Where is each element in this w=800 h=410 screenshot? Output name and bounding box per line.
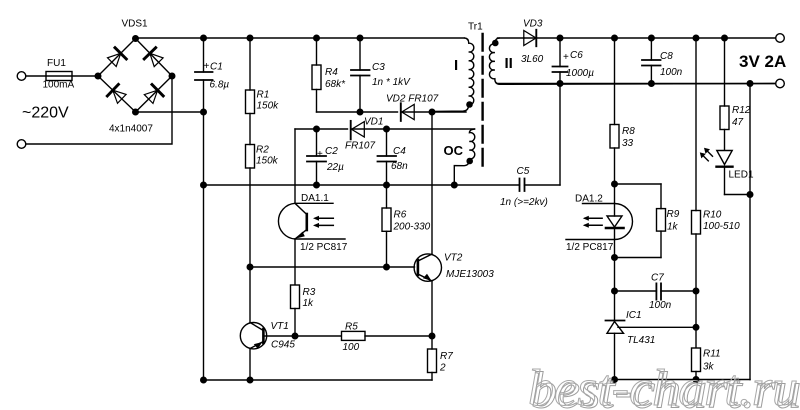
svg-text:R6: R6 (394, 210, 407, 221)
bridge diode top-left (108, 48, 127, 67)
LED LED1 (717, 151, 751, 195)
DA1.1 light arrow 1 (313, 216, 333, 221)
diode VD2 (401, 103, 466, 121)
svg-text:47: 47 (732, 117, 744, 128)
winding OC (454, 129, 474, 185)
node R2 bottom / VT2 base net (247, 264, 253, 270)
DA1.1 light arrow 2 (313, 223, 333, 228)
wire II top to VD3 (498, 37, 525, 39)
wire VT2 base net (250, 266, 415, 268)
svg-text:FU1: FU1 (47, 58, 66, 69)
node R3 bottom / VT1 base (292, 333, 298, 339)
svg-text:VT1: VT1 (271, 321, 289, 332)
bridge diode bottom-right (144, 85, 163, 104)
wire R10 to R11 (695, 291, 697, 347)
resistor R11 (692, 348, 701, 380)
node R12 top (722, 35, 728, 41)
node C8 bottom (649, 81, 655, 87)
node IC1 ref (693, 325, 699, 331)
node bridge top (133, 36, 139, 42)
resistor R2 (246, 145, 255, 268)
node OC bottom gnd (452, 182, 458, 188)
diode VD3 (524, 30, 776, 46)
svg-text:C4: C4 (393, 146, 406, 157)
svg-text:2: 2 (439, 363, 446, 374)
svg-text:3V 2A: 3V 2A (739, 52, 786, 71)
diode VD1 (351, 121, 475, 139)
svg-text:+: + (204, 61, 210, 72)
svg-text:C8: C8 (660, 51, 673, 62)
node C6 top (557, 35, 563, 41)
node bridge left (95, 73, 101, 79)
wire switch node down to VT2 collector (431, 112, 433, 254)
node R11 bottom (693, 377, 699, 383)
svg-text:1000µ: 1000µ (566, 68, 594, 79)
transistor VT1 C945 (240, 267, 266, 380)
wire top rail primary (136, 37, 465, 39)
wire primary gnd bottom rail (204, 379, 433, 381)
fuse FU1 (46, 72, 98, 81)
resistor R8 (610, 38, 619, 184)
node R8 bottom / DA1.2 anode (612, 181, 618, 187)
wire left gnd drop (203, 185, 205, 380)
svg-text:C3: C3 (372, 62, 385, 73)
svg-text:TL431: TL431 (627, 335, 655, 346)
winding I polarity dot (467, 102, 472, 107)
resistor R10 (692, 38, 701, 291)
svg-text:R9: R9 (667, 209, 680, 220)
wire input top to fuse (26, 75, 46, 77)
svg-text:IC1: IC1 (626, 310, 642, 321)
resistor R9 (615, 184, 666, 258)
svg-text:R1: R1 (257, 90, 270, 101)
winding II (489, 38, 775, 84)
node bridge right (169, 73, 175, 79)
node C3 top (357, 35, 363, 41)
node DA1.2 cathode (612, 255, 618, 261)
svg-text:150k: 150k (257, 101, 280, 112)
svg-text:C6: C6 (570, 50, 583, 61)
capacitor C5 (520, 84, 561, 192)
svg-text:C945: C945 (271, 340, 295, 351)
output terminal minus (776, 79, 785, 88)
optocoupler DA1.2 LED (566, 184, 633, 258)
svg-text:+: + (317, 149, 323, 160)
resistor R5 (342, 331, 433, 340)
svg-text:II: II (505, 55, 513, 72)
svg-text:R12: R12 (732, 105, 751, 116)
capacitor C2 (307, 129, 326, 185)
svg-text:MJE13003: MJE13003 (446, 269, 494, 280)
svg-text:R2: R2 (256, 145, 269, 156)
node R1 top (247, 35, 253, 41)
node VT1 emitter gnd (247, 377, 253, 383)
svg-text:68n: 68n (391, 161, 408, 172)
node C4 bottom / R6 top (384, 182, 390, 188)
svg-text:VD2 FR107: VD2 FR107 (386, 94, 439, 105)
transformer Tr1 core (481, 34, 483, 172)
wire secondary 0V rail (498, 83, 776, 85)
wire DA1.1 emitter to R3 (294, 239, 296, 284)
winding OC polarity dot (467, 158, 472, 163)
node C8 top (649, 35, 655, 41)
capacitor C7 (615, 283, 697, 299)
svg-text:+: + (563, 52, 569, 63)
capacitor C6 (553, 38, 568, 84)
optocoupler DA1.1 phototransistor (278, 203, 345, 239)
resistor R7 (428, 336, 437, 380)
svg-text:68k*: 68k* (325, 79, 346, 90)
DA1.2 light arrow 1 (583, 216, 602, 221)
svg-text:100-510: 100-510 (703, 221, 740, 232)
node C2 bottom (314, 182, 320, 188)
node IC1 anode gnd (612, 377, 618, 383)
wire DA1.1 collector drop (294, 129, 296, 203)
svg-text:150k: 150k (256, 156, 279, 167)
node VD1 C4 junction (384, 126, 390, 132)
svg-text:1k: 1k (667, 222, 679, 233)
wire secondary gnd rail (615, 379, 751, 381)
svg-text:DA1.2: DA1.2 (575, 194, 603, 205)
node left gnd bottom (201, 377, 207, 383)
node C7 right (693, 288, 699, 294)
svg-text:R3: R3 (303, 287, 316, 298)
capacitor C1 (195, 38, 213, 185)
node C2 top (314, 126, 320, 132)
LED1 emission arrow 1 (704, 148, 713, 157)
svg-text:R8: R8 (622, 126, 635, 137)
svg-text:~220V: ~220V (22, 105, 69, 122)
bridge VDS1 frame (98, 39, 172, 113)
winding I (432, 38, 474, 112)
svg-text:C5: C5 (517, 166, 530, 177)
svg-text:DA1.1: DA1.1 (301, 193, 329, 204)
svg-text:3L60: 3L60 (521, 54, 544, 65)
input terminal top (17, 72, 26, 81)
output terminal plus (776, 34, 785, 43)
wire mid gnd rail (204, 184, 520, 186)
wire 0V drop right (749, 84, 751, 380)
wire snubber bottom (317, 111, 398, 113)
resistor R6 (382, 185, 391, 267)
svg-text:6.8µ: 6.8µ (210, 80, 230, 91)
bridge diode top-right (144, 48, 163, 67)
node R8 top (612, 35, 618, 41)
capacitor C3 (351, 38, 370, 112)
svg-text:4x1n4007: 4x1n4007 (109, 124, 153, 135)
node C1 bridge bottom (201, 109, 207, 115)
resistor R3 (291, 285, 300, 336)
node bridge bottom (133, 109, 139, 115)
svg-text:R4: R4 (325, 67, 338, 78)
input terminal bottom (17, 140, 26, 149)
svg-text:1/2 PC817: 1/2 PC817 (566, 242, 614, 253)
node R10 top (693, 35, 699, 41)
svg-text:100n: 100n (660, 67, 683, 78)
svg-text:R10: R10 (703, 210, 722, 221)
DA1.2 light arrow 2 (583, 223, 602, 228)
bridge diode bottom-left (107, 84, 126, 103)
resistor R1 (246, 38, 255, 145)
svg-text:Tr1: Tr1 (468, 22, 483, 33)
svg-text:I: I (454, 57, 458, 74)
svg-text:1/2 PC817: 1/2 PC817 (300, 242, 348, 253)
svg-text:R5: R5 (345, 322, 358, 333)
svg-text:C2: C2 (325, 146, 338, 157)
node R4 top (314, 35, 320, 41)
svg-text:33: 33 (622, 138, 634, 149)
svg-text:R7: R7 (440, 351, 453, 362)
wire DA1.2 cathode to C7 (614, 258, 616, 321)
node C1 top (201, 35, 207, 41)
shunt regulator IC1 TL431 (606, 321, 697, 380)
watermark best-chart.ru (528, 360, 800, 410)
node LED1 return (747, 192, 753, 198)
svg-text:100n: 100n (649, 300, 672, 311)
node C3 bottom (357, 109, 363, 115)
svg-text:FR107: FR107 (345, 141, 375, 152)
wire input bottom (26, 76, 172, 144)
svg-text:VDS1: VDS1 (122, 19, 149, 30)
svg-text:200-330: 200-330 (393, 222, 431, 233)
node VD2 switch (429, 109, 435, 115)
svg-text:best-chart.ru: best-chart.ru (528, 360, 798, 410)
resistor R4 (312, 38, 321, 112)
svg-text:100mA: 100mA (43, 80, 75, 91)
svg-text:OC: OC (444, 143, 464, 158)
svg-text:VT2: VT2 (444, 253, 463, 264)
svg-text:R11: R11 (703, 349, 721, 360)
resistor R12 (720, 38, 729, 150)
svg-text:22µ: 22µ (326, 162, 344, 173)
node 0V drop top (747, 81, 753, 87)
svg-text:1k: 1k (303, 298, 315, 309)
wire VD1 aux line corner (295, 128, 348, 130)
node C7 left (612, 288, 618, 294)
node C1 gnd (201, 182, 207, 188)
node C6 bottom / C5 (557, 81, 563, 87)
transistor VT2 MJE13003 (414, 254, 441, 336)
winding II polarity dot (493, 40, 498, 45)
svg-text:C7: C7 (651, 273, 664, 284)
node R6 bottom (384, 264, 390, 270)
capacitor C8 (642, 38, 661, 84)
svg-text:VD3: VD3 (523, 19, 543, 30)
capacitor C4 (378, 129, 397, 185)
svg-text:100: 100 (343, 342, 360, 353)
node VT2 emitter / R5 R7 (429, 333, 435, 339)
svg-text:1n (>=2kv): 1n (>=2kv) (500, 197, 548, 208)
wire VT1 base to R5 (263, 335, 341, 337)
wire bridge bottom to C1 (136, 111, 204, 113)
svg-text:1n * 1kV: 1n * 1kV (372, 77, 411, 88)
svg-text:C1: C1 (210, 62, 223, 73)
LED1 emission arrow 2 (700, 152, 709, 161)
svg-text:VD1: VD1 (364, 117, 383, 128)
